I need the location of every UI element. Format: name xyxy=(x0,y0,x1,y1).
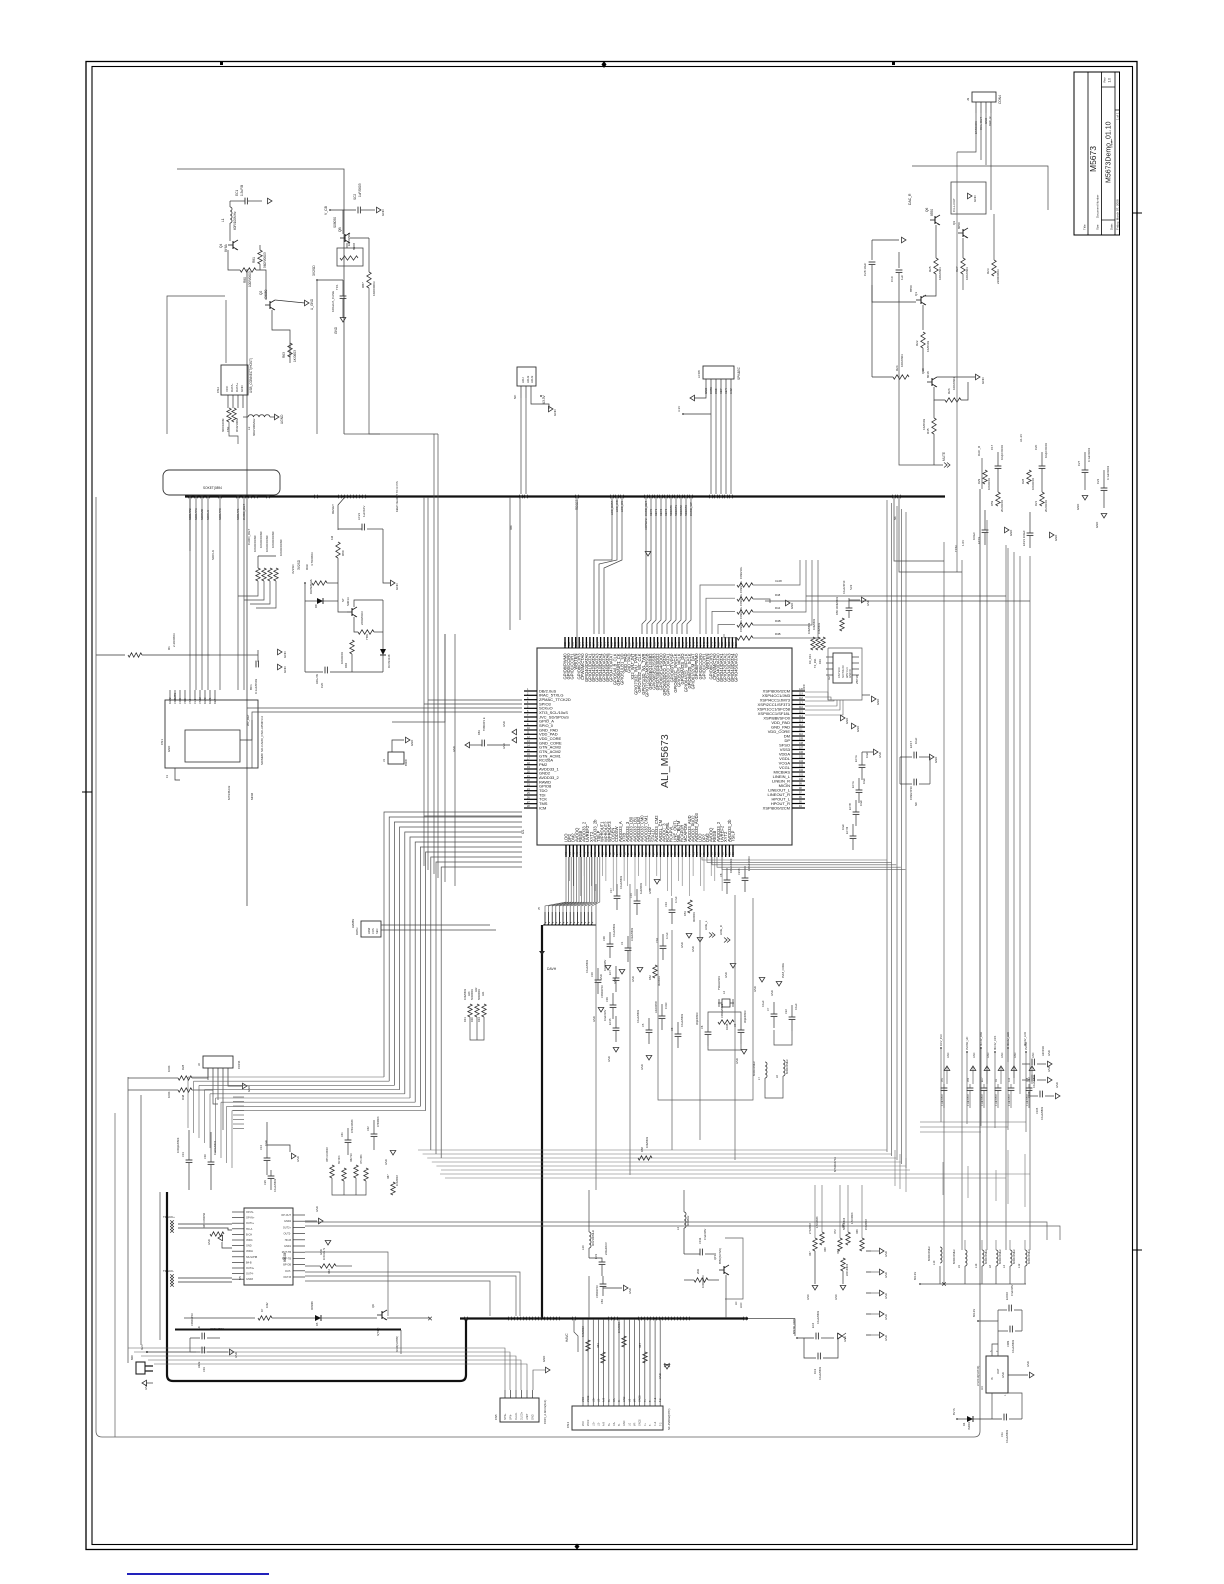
svg-text:KEY3: KEY3 xyxy=(664,508,668,516)
bottom row transistor QD xyxy=(377,1310,387,1320)
inductor L7 600/100MHz xyxy=(765,1062,767,1078)
svg-text:R48: R48 xyxy=(775,593,781,597)
svg-text:C10: C10 xyxy=(1009,1077,1011,1082)
svg-text:GND: GND xyxy=(1001,1052,1004,1058)
wire QP1 down to bus xyxy=(725,1275,727,1318)
svg-text:RX_R31: RX_R31 xyxy=(808,654,812,664)
svg-text:GND: GND xyxy=(987,1052,990,1058)
svg-text:EC21 100uF: EC21 100uF xyxy=(1022,530,1026,546)
svg-text:15K: 15K xyxy=(226,427,230,432)
inductor L30 600/100MHz xyxy=(589,1232,591,1248)
ground right of U5 xyxy=(305,1220,317,1222)
svg-text:148: 148 xyxy=(685,641,688,646)
wire J3 up to GND xyxy=(392,740,404,752)
svg-text:600/100MHz: 600/100MHz xyxy=(998,1249,1002,1264)
svg-text:MSTR_PAD: MSTR_PAD xyxy=(792,1319,796,1334)
bottom row resistor R7 xyxy=(258,1316,272,1320)
svg-text:M3.3V: M3.3V xyxy=(913,1272,917,1280)
wire left rail of audio block xyxy=(871,285,873,302)
connector J9 CON4 box xyxy=(972,92,996,102)
svg-text:R59: R59 xyxy=(990,500,994,506)
svg-text:Q4: Q4 xyxy=(219,244,223,248)
sheet inner border frame xyxy=(92,67,1133,1545)
svg-text:GND: GND xyxy=(884,1251,888,1257)
net label DAVH xyxy=(539,951,545,955)
inductor L8 600/100MHz xyxy=(996,1250,998,1266)
svg-text:GND: GND xyxy=(283,666,287,674)
wire cluster rails xyxy=(332,1178,366,1195)
wires CN5 bundle left xyxy=(128,1348,505,1390)
svg-text:0.1uF/0603: 0.1uF/0603 xyxy=(636,1009,640,1023)
SD connector pin stubs xyxy=(169,690,171,700)
USB connector pins xyxy=(227,395,229,408)
CN4 drop wires from bus xyxy=(582,1319,584,1406)
svg-text:161: 161 xyxy=(639,641,642,646)
svg-text:1000pF/0603: 1000pF/0603 xyxy=(176,1137,180,1153)
svg-text:CS# VCC: CS# VCC xyxy=(838,667,841,678)
diode D8 DA/SMAHA xyxy=(317,598,323,604)
svg-text:OUT-: OUT- xyxy=(285,1270,291,1273)
svg-text:10K/0603: 10K/0603 xyxy=(645,1136,649,1148)
X mark at M3.3V xyxy=(942,1282,946,1286)
svg-text:C51: C51 xyxy=(942,1077,944,1082)
svg-text:M5673: M5673 xyxy=(1088,146,1098,172)
svg-text:116: 116 xyxy=(799,706,803,709)
wire Q2 emitter down xyxy=(272,310,290,363)
svg-text:600/100MHz: 600/100MHz xyxy=(1012,1249,1016,1264)
svg-text:GND: GND xyxy=(246,1245,252,1248)
svg-text:GND: GND xyxy=(807,1294,810,1300)
ground arrows row2 xyxy=(605,966,611,971)
reset right rail and GND xyxy=(383,529,391,583)
svg-text:SEN: SEN xyxy=(375,929,379,934)
svg-text:0.1uF/0603: 0.1uF/0603 xyxy=(1005,1429,1009,1443)
wire QB emitter loop xyxy=(346,243,348,248)
svg-text:C105: C105 xyxy=(1035,1107,1039,1114)
svg-text:10K/0603: 10K/0603 xyxy=(463,988,467,1000)
wire left column x167 thick upper xyxy=(166,1192,168,1260)
resistor R52 0R xyxy=(653,965,657,978)
wire CARD_WP right xyxy=(894,497,944,561)
ground U_GND top-left xyxy=(268,198,273,204)
svg-text:GND DI: GND DI xyxy=(849,669,852,678)
wire right column x1014 xyxy=(1013,552,1015,1078)
svg-text:B4-B: B4-B xyxy=(246,1261,252,1264)
svg-text:180: 180 xyxy=(571,641,574,646)
svg-text:J9: J9 xyxy=(966,98,970,102)
svg-text:142: 142 xyxy=(707,641,710,646)
svg-text:GND: GND xyxy=(1076,504,1080,510)
svg-text:Date:: Date: xyxy=(1110,223,1114,230)
svg-text:SDDAT2: SDDAT2 xyxy=(679,505,683,516)
ground at C5 xyxy=(646,1056,652,1061)
svg-text:114: 114 xyxy=(799,715,803,718)
net 3V2SD node xyxy=(316,279,318,281)
supply rail caps row 0.1uF/0803 xyxy=(941,1087,948,1089)
resistor R27 10K/0603 xyxy=(962,238,964,258)
capacitor C14 10uF xyxy=(264,1157,271,1159)
svg-text:C083: C083 xyxy=(1006,1340,1010,1347)
svg-text:EC7B: EC7B xyxy=(848,803,852,810)
capacitor EC7B 10uF xyxy=(856,789,863,791)
svg-text:R21: R21 xyxy=(1034,500,1038,506)
svg-text:R4B: R4B xyxy=(775,632,781,636)
svg-text:0.1uF/0803: 0.1uF/0803 xyxy=(982,1094,984,1106)
ground at C27 xyxy=(1082,496,1088,501)
ground at crystal xyxy=(741,1050,747,1055)
svg-text:BP-OB: BP-OB xyxy=(283,1264,291,1267)
wire USB gnd bottom xyxy=(229,422,238,444)
bus sweep bundle left down tails xyxy=(187,1077,189,1128)
svg-text:B-: B- xyxy=(618,1399,621,1402)
svg-text:GND: GND xyxy=(1009,530,1013,536)
svg-text:NS-SVHB: NS-SVHB xyxy=(246,1256,257,1259)
svg-text:GND: GND xyxy=(845,718,849,724)
svg-text:R37: R37 xyxy=(809,1251,812,1256)
svg-text:Title: Title xyxy=(1083,224,1087,230)
capacitor SC2 1uF/0603 xyxy=(330,209,356,211)
svg-text:R24: R24 xyxy=(895,365,899,371)
resistor RL1 100K horizontal xyxy=(178,1076,192,1080)
svg-text:3V2SD: 3V2SD xyxy=(297,559,301,570)
svg-text:L3: L3 xyxy=(676,1226,680,1230)
svg-text:WP_DET: WP_DET xyxy=(246,714,250,726)
svg-text:GND: GND xyxy=(770,990,774,996)
svg-text:BV IN: BV IN xyxy=(952,1408,956,1415)
svg-text:C23B: C23B xyxy=(737,868,741,875)
inductor L4 600/100MHz xyxy=(1010,1250,1012,1266)
capacitor EC1 1.5uF/B xyxy=(230,200,245,202)
svg-text:GND: GND xyxy=(866,600,870,606)
svg-text:SO HOLD#: SO HOLD# xyxy=(842,665,845,678)
staircase feed horizontals from IC bottom-left xyxy=(424,815,522,817)
svg-text:CN2: CN2 xyxy=(216,387,220,393)
wires RK array down xyxy=(470,1017,484,1040)
wire SD gnd xyxy=(175,768,180,780)
ground at R34 xyxy=(842,1271,844,1284)
svg-text:27K/0603: 27K/0603 xyxy=(809,1223,812,1234)
main top bus heavy line xyxy=(185,495,945,497)
box C3-L-OUT xyxy=(951,182,986,214)
svg-text:220R/0603: 220R/0603 xyxy=(360,611,364,625)
svg-text:R63: R63 xyxy=(282,352,286,358)
svg-text:1.0V: 1.0V xyxy=(961,540,965,546)
ground inside C3-L-OUT xyxy=(968,193,973,199)
svg-text:DLED+: DLED+ xyxy=(521,1411,524,1420)
wire right column x1020 xyxy=(1019,556,1021,1094)
bottom heavy bus line xyxy=(460,1317,748,1319)
wires LDO top xyxy=(978,1321,998,1356)
capacitor at U2 xyxy=(846,607,853,609)
svg-text:L30: L30 xyxy=(581,1245,585,1250)
IC U1 ALI_M5673 body xyxy=(537,648,792,845)
wire M3.3V rail horizontal xyxy=(920,1283,1026,1285)
ground at CN4 right xyxy=(664,1365,670,1370)
svg-text:ADJ: ADJ xyxy=(521,377,525,383)
svg-text:MIC: MIC xyxy=(130,1355,134,1360)
ground at SPK connector xyxy=(694,392,706,398)
svg-text:VCC: VCC xyxy=(802,684,806,690)
svg-text:135: 135 xyxy=(732,641,735,646)
wire caps to Q3 xyxy=(872,285,916,302)
audio amp U5 8002B box xyxy=(244,1208,293,1285)
svg-text:GND: GND xyxy=(296,1156,300,1162)
resistor R35 1.5K/0603 xyxy=(846,1232,850,1245)
svg-text:LCD8: LCD8 xyxy=(697,370,701,378)
svg-text:GND: GND xyxy=(648,888,652,894)
svg-text:R8A: R8A xyxy=(328,1269,331,1274)
svg-text:SPK&EC: SPK&EC xyxy=(737,366,741,380)
svg-text:GND: GND xyxy=(934,757,938,763)
svg-text:VSS2: VSS2 xyxy=(198,697,202,704)
wires IC bottom pins short drops xyxy=(569,857,571,881)
svg-text:C090/10L: C090/10L xyxy=(739,606,743,619)
connector J8 ADJ box xyxy=(517,367,536,386)
bus sweep bundle lower xyxy=(418,1149,887,1151)
svg-text:GND: GND xyxy=(884,1314,888,1320)
IC U1 right pin row xyxy=(792,690,805,692)
svg-text:R33: R33 xyxy=(818,659,822,664)
svg-text:100K/0603: 100K/0603 xyxy=(701,1275,705,1288)
svg-text:100: 100 xyxy=(799,778,804,781)
svg-text:10K/0603/NC: 10K/0603/NC xyxy=(279,539,283,556)
svg-text:10K/0603: 10K/0603 xyxy=(812,618,816,630)
svg-text:UGND: UGND xyxy=(280,414,284,424)
svg-text:MDM: MDM xyxy=(250,792,254,800)
inductor L3 600MHz xyxy=(684,1212,686,1228)
svg-text:D4: D4 xyxy=(962,1422,966,1426)
net MUTE chevron xyxy=(934,464,943,466)
connector CN5 pin labels xyxy=(504,1390,506,1398)
svg-text:LD-: LD- xyxy=(597,1422,600,1426)
IC bottom small connector comb xyxy=(544,912,546,925)
svg-text:100R/0603: 100R/0603 xyxy=(248,271,252,287)
net LINE_L chevron xyxy=(709,933,712,938)
wire right column x957 xyxy=(956,152,958,572)
resistor R43 10R/0603 xyxy=(737,623,753,627)
svg-text:KEY1: KEY1 xyxy=(654,508,658,516)
svg-text:KEY2: KEY2 xyxy=(659,508,663,516)
svg-text:LINE_R: LINE_R xyxy=(719,925,723,935)
svg-text:C5: C5 xyxy=(641,1023,645,1027)
capacitor EC7D 10uF xyxy=(850,835,857,837)
ground near keypad wires xyxy=(645,552,651,557)
svg-text:GND: GND xyxy=(410,740,414,746)
connector CON6 pins xyxy=(207,1068,209,1080)
svg-text:143: 143 xyxy=(703,641,706,646)
svg-text:C31: C31 xyxy=(341,1132,344,1137)
ground at EC19 xyxy=(1005,527,1010,533)
resistor RK3 xyxy=(482,1004,486,1017)
wire loop from top-left block xyxy=(177,169,344,434)
wire loop around U2 xyxy=(828,648,862,700)
svg-text:105: 105 xyxy=(799,756,804,759)
svg-text:GND: GND xyxy=(884,1335,888,1341)
wires CON4 down xyxy=(957,113,976,152)
svg-text:R33uF/0603: R33uF/0603 xyxy=(729,858,733,873)
svg-text:179: 179 xyxy=(575,641,578,646)
wires R40 array right side xyxy=(753,560,800,585)
svg-text:GND: GND xyxy=(1047,1066,1051,1072)
svg-text:TRACK+: TRACK+ xyxy=(163,1215,175,1219)
svg-text:C090/JP10: C090/JP10 xyxy=(909,786,913,800)
svg-text:GND: GND xyxy=(790,603,794,609)
svg-text:LCD_DATA: LCD_DATA xyxy=(610,501,614,515)
svg-text:600/100MHz: 600/100MHz xyxy=(752,1061,756,1076)
svg-text:DAT0: DAT0 xyxy=(203,697,207,704)
svg-text:A1.2V: A1.2V xyxy=(1019,434,1023,442)
svg-text:4.7K/0603: 4.7K/0603 xyxy=(310,552,314,566)
resistor R42 10R/0603 xyxy=(737,610,753,614)
IC U2 25P10 box xyxy=(833,653,852,683)
svg-text:MT945233: MT945233 xyxy=(227,785,231,800)
capacitor C04 4.7uF xyxy=(660,945,667,947)
svg-text:8550: 8550 xyxy=(909,285,913,292)
svg-text:CARD_WP: CARD_WP xyxy=(689,502,693,516)
svg-text:Q3: Q3 xyxy=(914,292,918,296)
microphone connector MIC box xyxy=(136,1362,145,1374)
svg-text:153: 153 xyxy=(668,641,671,646)
svg-text:158: 158 xyxy=(650,641,653,646)
svg-text:SPN+: SPN+ xyxy=(504,1413,507,1420)
ground mid below IC xyxy=(654,880,660,885)
svg-text:GND: GND xyxy=(947,1052,950,1058)
border fold diamond top-center xyxy=(602,61,607,68)
wire array feed right y601 xyxy=(765,600,1030,602)
svg-text:2DK: 2DK xyxy=(696,1269,700,1274)
svg-text:C7: C7 xyxy=(766,1007,770,1011)
svg-text:GND: GND xyxy=(878,752,882,758)
svg-text:LG: LG xyxy=(628,1423,631,1426)
bus thin continuation to MSTR_PAD xyxy=(748,1318,795,1320)
svg-text:C33: C33 xyxy=(202,1367,206,1372)
svg-text:A3V3SD: A3V3SD xyxy=(1041,1046,1045,1056)
wire USB block frame xyxy=(167,296,225,434)
svg-text:M3.3V_PAD: M3.3V_PAD xyxy=(979,1032,983,1046)
svg-text:ADJ/JP08: ADJ/JP08 xyxy=(654,1001,658,1013)
svg-text:U_GND: U_GND xyxy=(310,298,314,310)
ground near 9V18 xyxy=(759,978,765,983)
svg-text:10uF: 10uF xyxy=(914,737,918,744)
svg-text:R60/100M: R60/100M xyxy=(235,418,239,432)
svg-text:1uF: 1uF xyxy=(900,275,904,280)
capacitor EC15 10uF/10V xyxy=(613,1027,620,1029)
bus sweep bundle staircase to audio block xyxy=(188,1076,384,1078)
svg-text:LINE_L: LINE_L xyxy=(704,920,708,930)
svg-text:GND: GND xyxy=(884,1272,888,1278)
svg-text:SDDAT2: SDDAT2 xyxy=(188,508,192,520)
resistor R37 27K/0603 xyxy=(813,1238,817,1251)
wires IC right pins to U2 loop xyxy=(805,692,828,700)
svg-text:TX_R31: TX_R31 xyxy=(813,658,817,668)
svg-text:REF-TB: REF-TB xyxy=(282,1257,291,1260)
transistor Q4 8Y8A xyxy=(228,240,238,250)
svg-text:LD+: LD+ xyxy=(592,1397,595,1402)
svg-text:Q9: Q9 xyxy=(952,221,956,225)
svg-text:DAT2: DAT2 xyxy=(168,697,172,704)
svg-text:M3.3V_CXS: M3.3V_CXS xyxy=(993,1035,997,1050)
svg-text:C29: C29 xyxy=(263,1180,267,1185)
svg-text:OUT1+: OUT1+ xyxy=(246,1222,255,1225)
svg-text:GND: GND xyxy=(315,1206,319,1212)
svg-text:GND: GND xyxy=(240,385,244,393)
net 3.3V at SPK xyxy=(682,413,684,415)
svg-text:DLED-: DLED- xyxy=(515,1412,518,1420)
svg-text:ALI_M5673: ALI_M5673 xyxy=(659,734,671,788)
wires SD signals down from bus xyxy=(189,497,191,690)
svg-text:0R/0603: 0R/0603 xyxy=(692,912,696,922)
wire IRC drop 2 xyxy=(519,497,521,620)
wire array feed right y596 xyxy=(806,595,1006,597)
svg-text:LC21: LC21 xyxy=(357,512,361,520)
wire right column x987 xyxy=(986,520,988,1250)
ground U_GND at Q2 xyxy=(275,300,305,303)
LDO U4 block xyxy=(986,1356,1008,1393)
svg-text:3.3V: 3.3V xyxy=(677,406,681,412)
ground at U5 pin7 xyxy=(222,1242,232,1248)
svg-text:TC1: TC1 xyxy=(335,284,339,290)
supply rail bottom sweep lines xyxy=(920,1121,1026,1123)
ground arrow column x5 xyxy=(866,1250,879,1252)
svg-text:I009M6: I009M6 xyxy=(310,1301,314,1310)
svg-text:60R/100MHz: 60R/100MHz xyxy=(233,211,237,230)
ground at CON6 xyxy=(228,1080,243,1086)
capacitor TC1 100uF/A_CASE xyxy=(342,280,344,296)
svg-text:R44: R44 xyxy=(775,606,781,610)
wire D4 to LDO in xyxy=(991,1393,993,1419)
ground above caps xyxy=(872,239,899,241)
resistor XR 1M horizontal xyxy=(718,1020,734,1024)
svg-text:SDDAT3: SDDAT3 xyxy=(684,505,688,516)
svg-text:0.1uF/0603: 0.1uF/0603 xyxy=(612,923,616,937)
crystal loop wires xyxy=(708,1012,741,1020)
mid column bundle x887-906 xyxy=(886,500,888,1152)
svg-text:IN: IN xyxy=(990,1377,994,1380)
wires resistor group top xyxy=(814,1185,816,1238)
svg-text:VR: VR xyxy=(634,1422,637,1426)
capacitor BC1 0.1uF/0603 xyxy=(257,650,259,662)
svg-text:R80: R80 xyxy=(243,277,247,283)
resistor R29 /0603 xyxy=(983,470,987,484)
svg-text:LG: LG xyxy=(628,1399,631,1402)
svg-text:GND: GND xyxy=(884,1293,888,1299)
svg-text:CL08: CL08 xyxy=(775,579,782,583)
capacitor EC19 100uF xyxy=(982,529,989,531)
svg-text:VDD: VDD xyxy=(183,698,187,704)
svg-text:M5673Demo_01.10: M5673Demo_01.10 xyxy=(1106,121,1113,183)
svg-text:0.1uF: 0.1uF xyxy=(794,1003,798,1010)
svg-text:1M: 1M xyxy=(330,535,334,540)
svg-text:C0903/0603: C0903/0603 xyxy=(720,1003,724,1018)
svg-text:EC60/9K1: EC60/9K1 xyxy=(347,232,351,246)
svg-text:LD+: LD+ xyxy=(592,1421,595,1426)
connector LCD8 SPK&EC box xyxy=(703,366,734,379)
svg-text:Y8W: Y8W xyxy=(365,634,369,640)
svg-text:C090/10L: C090/10L xyxy=(739,566,743,579)
svg-text:0.1uF/0603: 0.1uF/0603 xyxy=(1106,465,1110,480)
resistor R22 1K/0603 vertical xyxy=(922,305,924,330)
svg-text:147: 147 xyxy=(689,641,692,646)
svg-text:C3-L-OUT: C3-L-OUT xyxy=(952,198,956,212)
svg-text:8050: 8050 xyxy=(957,222,961,229)
connector J3 B008 box xyxy=(388,752,404,764)
svg-text:J5: J5 xyxy=(537,907,541,910)
svg-text:D8: D8 xyxy=(314,604,318,608)
svg-text:10K/0603: 10K/0603 xyxy=(952,377,956,390)
border fold tick top-right xyxy=(892,62,895,65)
resistor RB6 89K8 horizontal xyxy=(337,248,363,266)
svg-text:R82: R82 xyxy=(344,662,348,668)
